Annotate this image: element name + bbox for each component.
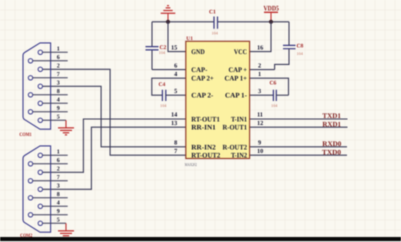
svg-text:8: 8 bbox=[57, 89, 60, 95]
svg-text:104: 104 bbox=[297, 51, 304, 56]
svg-text:11: 11 bbox=[257, 112, 263, 119]
svg-text:6: 6 bbox=[57, 158, 60, 164]
wire pin 4 loop to C4 bbox=[152, 78, 186, 95]
wire GND rail corner down through C2 bbox=[151, 22, 153, 70]
wire rail corner down to C8 bbox=[288, 22, 290, 45]
svg-text:1: 1 bbox=[258, 71, 261, 78]
COM2 pin 1 bbox=[38, 150, 68, 158]
svg-text:1: 1 bbox=[57, 47, 60, 53]
COM1 pin 5 bbox=[38, 115, 66, 123]
power VDD5 bbox=[264, 5, 280, 22]
wire pin 2 bbox=[250, 69, 275, 71]
connector COM2 body bbox=[23, 146, 51, 232]
svg-text:2: 2 bbox=[57, 64, 60, 70]
wire GND rail top (right segment) bbox=[218, 21, 290, 23]
junction VDD5 / pin 16 bbox=[269, 20, 273, 24]
wire pin 11 bbox=[250, 118, 348, 120]
COM2 pin 5 bbox=[38, 218, 66, 226]
svg-text:2: 2 bbox=[57, 167, 60, 173]
COM2 pin 2 bbox=[38, 167, 60, 175]
capacitor C2 bbox=[146, 45, 167, 55]
svg-text:4: 4 bbox=[57, 201, 60, 207]
svg-text:COM1: COM1 bbox=[19, 132, 32, 138]
svg-text:T-IN1: T-IN1 bbox=[231, 116, 247, 124]
svg-text:CAP-: CAP- bbox=[191, 66, 208, 74]
COM2 pin 6 bbox=[28, 158, 67, 166]
wire pin 12 bbox=[250, 126, 348, 128]
svg-text:R-OUT2: R-OUT2 bbox=[223, 143, 248, 151]
COM2 pin 9 bbox=[28, 209, 67, 217]
svg-text:7: 7 bbox=[174, 148, 177, 155]
capacitor C6 bbox=[270, 80, 289, 108]
svg-text:CAP +: CAP + bbox=[229, 66, 248, 74]
COM1 pin 1 bbox=[38, 47, 68, 55]
svg-text:CAP 1+: CAP 1+ bbox=[225, 75, 248, 83]
svg-text:10: 10 bbox=[257, 148, 263, 155]
svg-text:RR-IN2: RR-IN2 bbox=[191, 143, 216, 151]
svg-text:6: 6 bbox=[174, 62, 177, 69]
svg-text:C6: C6 bbox=[270, 80, 277, 86]
svg-text:RR-IN1: RR-IN1 bbox=[191, 124, 216, 132]
svg-text:4: 4 bbox=[57, 98, 60, 104]
COM1 pin 7 bbox=[28, 72, 67, 80]
capacitor C1 bbox=[209, 10, 219, 36]
wire pin 5 bbox=[166, 94, 186, 96]
svg-text:C4: C4 bbox=[159, 82, 166, 88]
svg-text:3: 3 bbox=[57, 184, 60, 190]
svg-text:16: 16 bbox=[257, 44, 263, 51]
svg-text:104: 104 bbox=[160, 103, 167, 108]
wire pin 15 bbox=[168, 22, 186, 52]
svg-text:RT-OUT1: RT-OUT1 bbox=[191, 116, 220, 124]
wire pin 16 bbox=[250, 22, 271, 52]
IC U1 (MAX202 RS-232 transceiver) bbox=[185, 36, 250, 167]
svg-text:RT-OUT2: RT-OUT2 bbox=[191, 152, 220, 160]
svg-text:8: 8 bbox=[174, 140, 177, 147]
svg-text:9: 9 bbox=[57, 106, 60, 112]
wire pin 14 to COM2 pin 2 bbox=[43, 119, 186, 172]
connector COM1 body bbox=[23, 43, 51, 129]
svg-text:R-OUT1: R-OUT1 bbox=[223, 124, 248, 132]
wire pin 3 bbox=[250, 94, 274, 96]
svg-text:15: 15 bbox=[171, 44, 177, 51]
svg-text:T-IN2: T-IN2 bbox=[231, 152, 247, 160]
svg-text:CAP 2-: CAP 2- bbox=[191, 92, 214, 100]
COM1 pin 6 bbox=[28, 55, 67, 63]
svg-text:104: 104 bbox=[212, 31, 219, 36]
ground (COM1 pin 5) bbox=[58, 120, 74, 135]
COM1 pin 3 bbox=[38, 81, 60, 89]
svg-text:CAP 1-: CAP 1- bbox=[225, 92, 248, 100]
svg-text:9: 9 bbox=[258, 140, 261, 147]
capacitor C4 bbox=[159, 82, 168, 108]
svg-text:7: 7 bbox=[57, 72, 60, 78]
svg-text:TXD1: TXD1 bbox=[322, 112, 341, 120]
svg-text:12: 12 bbox=[257, 120, 263, 127]
svg-text:6: 6 bbox=[57, 55, 60, 61]
wire GND rail top (left segment) bbox=[152, 21, 214, 23]
svg-text:MAX202: MAX202 bbox=[185, 162, 197, 167]
COM1 pin 2 bbox=[38, 64, 60, 72]
COM1 pin 4 bbox=[38, 98, 68, 106]
svg-text:13: 13 bbox=[171, 120, 177, 127]
svg-text:9: 9 bbox=[57, 209, 60, 215]
svg-text:VCC: VCC bbox=[234, 48, 247, 56]
svg-text:1: 1 bbox=[57, 150, 60, 156]
wire pin 1 loop to C6 bbox=[250, 78, 289, 95]
svg-text:5: 5 bbox=[57, 218, 60, 224]
svg-text:14: 14 bbox=[171, 112, 178, 119]
junction GND rail / pin 15 bbox=[166, 20, 170, 24]
COM1 pin 9 bbox=[28, 106, 67, 114]
wire pin 8 to COM1 pin 3 bbox=[43, 86, 186, 147]
wire pin 9 bbox=[250, 146, 347, 148]
svg-text:7: 7 bbox=[57, 175, 60, 181]
COM2 pin 4 bbox=[38, 201, 68, 209]
wire pin 10 bbox=[250, 154, 347, 156]
wire pin 6 bbox=[152, 69, 186, 71]
svg-text:RXD1: RXD1 bbox=[322, 120, 341, 128]
wire C8 bottom to pin 2 (CAP+) bbox=[275, 49, 289, 70]
COM1 pin 8 bbox=[28, 89, 67, 97]
svg-text:C1: C1 bbox=[209, 10, 216, 16]
svg-text:2: 2 bbox=[258, 62, 261, 69]
svg-text:U1: U1 bbox=[186, 36, 193, 42]
svg-text:8: 8 bbox=[57, 192, 60, 198]
svg-text:3: 3 bbox=[258, 88, 261, 95]
wire pin 13 to COM2 pin 3 bbox=[43, 127, 186, 189]
svg-text:GND: GND bbox=[191, 48, 204, 56]
svg-text:5: 5 bbox=[174, 88, 177, 95]
COM2 pin 3 bbox=[38, 184, 60, 192]
svg-text:RXD0: RXD0 bbox=[322, 140, 342, 148]
svg-text:CAP 2+: CAP 2+ bbox=[191, 75, 214, 83]
wire pin 7 to COM1 pin 2 bbox=[43, 69, 186, 155]
svg-text:3: 3 bbox=[57, 81, 60, 87]
svg-text:TXD0: TXD0 bbox=[322, 148, 342, 156]
ground (COM2 pin 5) bbox=[58, 223, 74, 235]
svg-text:VDD5: VDD5 bbox=[264, 5, 280, 13]
capacitor C8 bbox=[283, 44, 304, 57]
svg-text:C8: C8 bbox=[297, 44, 304, 50]
svg-text:104: 104 bbox=[271, 103, 278, 108]
COM2 pin 7 bbox=[28, 175, 67, 183]
COM2 pin 8 bbox=[28, 192, 67, 200]
ground (top rail) bbox=[161, 6, 176, 22]
svg-text:5: 5 bbox=[57, 115, 60, 121]
svg-text:104: 104 bbox=[159, 50, 166, 55]
